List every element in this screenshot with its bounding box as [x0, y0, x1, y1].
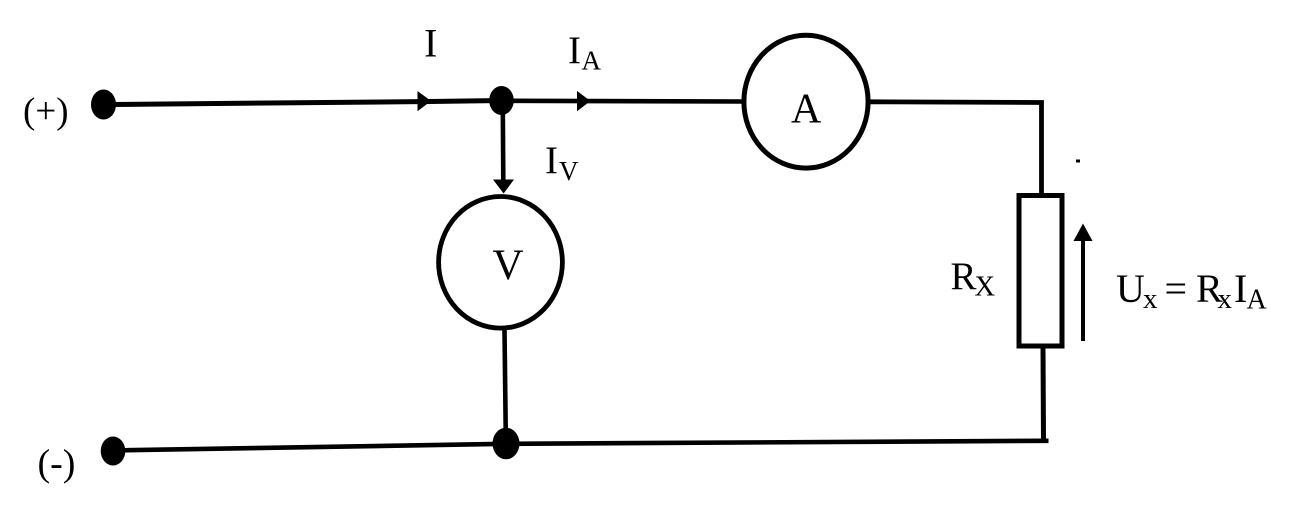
scan speck	[1076, 160, 1080, 163]
svg-text:I: I	[1234, 266, 1247, 311]
wire junction to voltmeter arrow	[500, 107, 505, 182]
current arrow IA	[577, 91, 591, 111]
svg-text:R: R	[951, 255, 977, 298]
resistor RX	[1019, 196, 1062, 347]
wire ammeter to top-right corner	[868, 102, 1042, 196]
ammeter U1	[744, 35, 868, 168]
label Ux = RxIA	[1116, 266, 1268, 316]
svg-text:(+): (+)	[23, 91, 69, 132]
node junction top	[489, 86, 514, 115]
svg-text:x: x	[1143, 283, 1158, 315]
svg-text:X: X	[975, 272, 996, 303]
node junction bottom	[493, 428, 520, 460]
svg-text:V: V	[493, 242, 524, 289]
svg-text:I: I	[424, 21, 437, 66]
current arrow IV	[493, 180, 514, 194]
current arrow I	[418, 91, 432, 111]
svg-text:=: =	[1165, 266, 1188, 311]
svg-text:V: V	[559, 156, 579, 186]
svg-text:x: x	[1218, 283, 1233, 315]
wire top-left	[110, 101, 502, 105]
svg-text:A: A	[791, 87, 822, 133]
terminal (+) dot	[91, 90, 116, 120]
wire bottom rail	[111, 441, 1049, 451]
svg-text:I: I	[568, 29, 581, 72]
terminal (-) dot	[101, 437, 126, 466]
svg-text:(-): (-)	[38, 443, 76, 485]
svg-text:U: U	[1116, 266, 1145, 311]
svg-text:I: I	[545, 139, 558, 182]
wire resistor to bottom rail	[1041, 346, 1047, 441]
voltage arrow Ux	[1074, 224, 1093, 342]
wire voltmeter to bottom junction	[505, 330, 506, 438]
svg-text:A: A	[582, 46, 602, 76]
voltmeter U2	[439, 196, 563, 328]
svg-text:A: A	[1247, 285, 1268, 316]
wire junction to ammeter	[502, 99, 742, 104]
